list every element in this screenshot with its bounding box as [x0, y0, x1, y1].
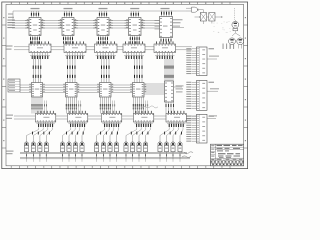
wire row1 bus segment 4	[109, 21, 129, 29]
transistor Q5	[60, 127, 70, 162]
wire dashed net to Q21	[234, 8, 236, 20]
pencil note mid sheet	[142, 106, 158, 108]
transistor Q11	[108, 127, 114, 162]
wire row1 bus segment 2	[41, 21, 62, 29]
transistor Q16	[143, 127, 150, 162]
wire top power bus	[13, 11, 186, 21]
transistor Q22	[229, 38, 236, 49]
net labels below cans	[223, 44, 235, 50]
transistor Q9	[95, 127, 105, 162]
IC U16	[35, 111, 55, 127]
transistor Q7	[73, 127, 79, 162]
wire row3 bus segment 2	[43, 85, 66, 93]
IC U15	[165, 81, 174, 114]
wire row2 bus segment 5	[145, 47, 154, 50]
wire row4 bus segment 3	[88, 116, 102, 119]
IC U10	[154, 41, 176, 59]
IC U5	[155, 8, 173, 44]
wire row3 bus segment 3	[77, 85, 100, 93]
connector J3	[186, 114, 214, 143]
pencil note near title block	[181, 152, 193, 158]
transistor Q4	[44, 127, 52, 162]
transistor Q21	[232, 20, 239, 33]
transistor Q3	[38, 127, 48, 162]
construction marks	[213, 21, 231, 33]
wire J3 note	[207, 115, 217, 118]
gate G1	[186, 7, 203, 12]
wire U5 output label	[173, 19, 185, 27]
net labels row4 left	[6, 115, 13, 119]
wire bus to U11	[33, 56, 42, 83]
transistor Q12	[114, 127, 118, 162]
IC U11	[29, 83, 47, 114]
wire row2 bus segment 1	[14, 47, 29, 50]
wire row1 bus segment 1	[12, 21, 29, 29]
connector J2	[186, 81, 214, 111]
wire row4 bus segment 2	[56, 116, 68, 119]
IC U1	[25, 8, 45, 44]
wire Q21 to Q22 Q23	[232, 33, 240, 36]
net labels bottom-left	[6, 151, 14, 155]
wire row2 bus segment 2	[51, 47, 64, 50]
wire row1 bus segment 5	[141, 21, 160, 29]
IC U19	[133, 111, 153, 127]
wire bus to U13	[101, 56, 110, 83]
wire row4 bus segment 6	[186, 116, 196, 119]
IC U17	[67, 111, 87, 127]
transistor Q1	[24, 127, 38, 162]
wire row2 bus segment 6	[176, 47, 192, 50]
wire row3 bus segment 5	[144, 84, 165, 94]
wire row3 bus segment 4	[111, 85, 133, 93]
transistor Q23	[237, 38, 244, 49]
net labels row2 left	[6, 46, 13, 50]
net labels top-left	[8, 14, 14, 18]
IC U2	[58, 8, 78, 44]
wire bus to U15	[165, 59, 174, 81]
wire row3 bus segment 1	[20, 85, 32, 93]
wire J2 test point	[207, 88, 219, 91]
wire bus to U12	[67, 56, 76, 83]
terminal block TB1	[8, 79, 20, 92]
wire bus to U14	[134, 56, 143, 83]
IC U7	[64, 41, 86, 59]
connector J1	[186, 47, 214, 76]
IC U20	[166, 111, 186, 127]
wire row4 bus segment 4	[122, 116, 134, 119]
driver A2	[207, 13, 223, 24]
net labels row1 left inputs	[7, 20, 14, 29]
IC U18	[101, 111, 121, 127]
wire row2 bus segment 4	[117, 47, 123, 50]
IC U3	[93, 8, 113, 44]
revision strip	[211, 161, 244, 166]
transistor Q15	[137, 127, 146, 162]
transistor Q17	[158, 127, 169, 162]
transistor Q13	[124, 127, 137, 162]
transistor Q14	[130, 127, 141, 162]
driver A1	[195, 10, 207, 24]
transistor Q19	[171, 127, 179, 162]
IC U9	[123, 41, 145, 59]
title block	[211, 144, 244, 166]
transistor Q20	[178, 127, 183, 162]
transistor Q10	[101, 127, 109, 162]
IC U6	[29, 41, 51, 59]
IC U12	[63, 83, 81, 114]
wire bottom bus pair B	[20, 158, 190, 159]
wire bottom bus pair A	[20, 152, 187, 153]
IC U8	[95, 41, 118, 59]
wire row2 bus segment 3	[86, 47, 95, 50]
IC U14	[130, 83, 148, 114]
IC U13	[97, 83, 115, 114]
transistor Q6	[67, 127, 75, 162]
wire row4 bus segment 5	[154, 116, 166, 119]
IC U4	[125, 8, 146, 44]
transistor Q18	[164, 127, 173, 162]
wire row4 bus segment 1	[14, 116, 35, 119]
net labels U15 right	[174, 85, 184, 92]
transistor Q2	[31, 127, 43, 162]
wire row1 bus segment 3	[74, 21, 97, 29]
transistor Q8	[80, 127, 85, 162]
wire J1 note	[207, 56, 219, 59]
